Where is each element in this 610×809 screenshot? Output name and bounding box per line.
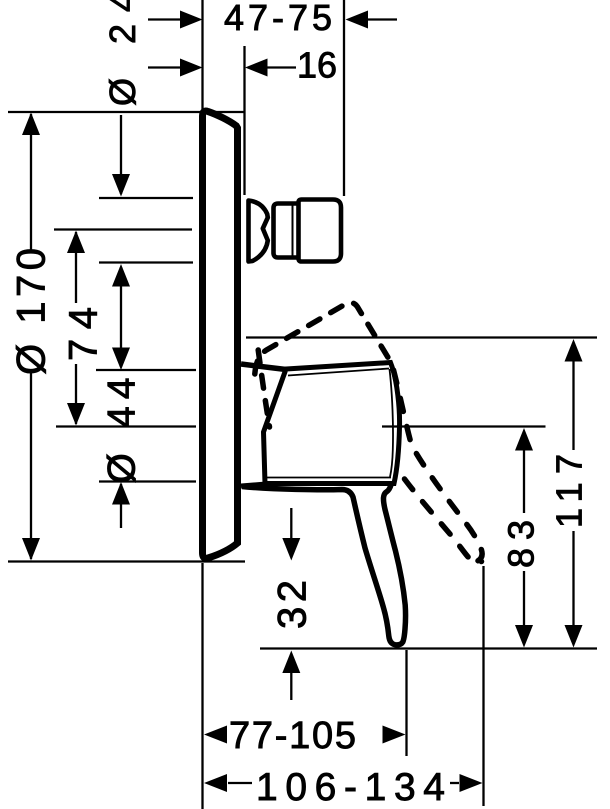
wire 32 dim upper stub (290, 508, 292, 538)
svg-text:Ø 24: Ø 24 (102, 0, 143, 106)
arrow dia44 bottom (112, 482, 130, 505)
wire (30, 372, 32, 559)
wire (243, 46, 245, 195)
wire (482, 566, 484, 806)
stop-valve neck (274, 204, 298, 258)
arrow 32 bottom (282, 651, 300, 674)
arrow 77-105 right (383, 726, 406, 744)
svg-text:106-134: 106-134 (256, 766, 445, 809)
arrow 47-75 left (180, 11, 203, 29)
arrow 83 top (515, 428, 533, 451)
wire (382, 425, 546, 427)
arrow 16 left (180, 59, 203, 77)
arrow dia170 top (22, 113, 40, 136)
svg-text:Ø 170: Ø 170 (10, 248, 54, 375)
stop-valve barrel (299, 200, 342, 262)
wire (267, 66, 296, 68)
wire (228, 782, 252, 784)
wire (201, 563, 203, 809)
arrow dia24 top (112, 174, 130, 197)
wire (54, 228, 192, 230)
wire (30, 114, 32, 252)
hub inner line bottom (267, 477, 391, 479)
svg-text:74: 74 (62, 307, 106, 361)
lever solid (242, 484, 406, 645)
dashed lever left edge (258, 350, 269, 427)
neck joint line (292, 205, 294, 256)
arrow 117 top (565, 339, 583, 362)
arrow 106-134 left (204, 774, 227, 792)
arrow dia24 bottom (112, 264, 130, 287)
svg-text:77-105: 77-105 (229, 715, 356, 757)
hub inner line right (390, 369, 394, 477)
wire (246, 336, 597, 338)
wire (368, 18, 397, 20)
handle hub (264, 363, 400, 484)
wire (148, 66, 182, 68)
wire (260, 647, 597, 649)
arrow dia170 bottom (22, 538, 40, 561)
arrow 106-134 right (460, 774, 483, 792)
wire 32 dim lower stub (290, 673, 292, 700)
wire (75, 232, 77, 303)
svg-text:117: 117 (549, 454, 590, 528)
hub inner line top (288, 369, 389, 376)
wire (120, 115, 122, 194)
stop-valve dome (249, 201, 268, 262)
wire (450, 782, 459, 784)
svg-text:83: 83 (501, 520, 542, 568)
arrow 83 bottom (515, 625, 533, 648)
wire (405, 650, 407, 756)
dashed lever upper edge (255, 303, 391, 374)
arrow 77-105 left (204, 726, 227, 744)
svg-text:16: 16 (297, 45, 337, 86)
wire (148, 18, 182, 20)
wire (120, 267, 122, 367)
wire (56, 425, 196, 427)
arrow dia44 top (112, 348, 130, 371)
arrow 47-75 right (346, 11, 369, 29)
wire (99, 480, 196, 482)
wire (201, 0, 203, 109)
svg-text:47-75: 47-75 (224, 0, 332, 38)
wire (120, 484, 122, 528)
dashed lever grip left edge (405, 479, 482, 563)
connector bottom (241, 484, 266, 486)
svg-text:Ø 44: Ø 44 (101, 378, 144, 484)
arrow 16 right (245, 59, 268, 77)
wire (8, 111, 245, 113)
connector top (241, 364, 286, 370)
wire (523, 571, 525, 626)
wire (99, 197, 193, 199)
arrow 117 bottom (565, 625, 583, 648)
wire (572, 531, 574, 626)
wire (343, 0, 345, 196)
wire (96, 369, 196, 371)
svg-text:32: 32 (271, 580, 315, 629)
arrow 32 top (282, 538, 300, 561)
escutcheon plate (203, 111, 238, 558)
wire (99, 261, 193, 263)
wire (75, 364, 77, 424)
wire (523, 450, 525, 513)
arrow 74 top (67, 231, 85, 254)
arrow 74 bottom (67, 403, 85, 426)
dashed lever right edge (394, 370, 483, 561)
wire (8, 560, 245, 562)
wire (572, 360, 574, 450)
